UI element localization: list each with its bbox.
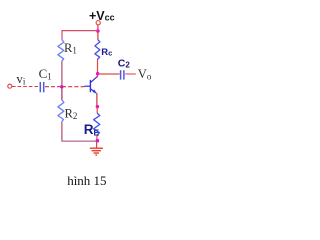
node A (base node junction) (60, 85, 64, 89)
resistor R1 (58, 40, 77, 87)
node ground junction (96, 139, 100, 143)
wire collector node to C2 (98, 73, 120, 75)
resistor RE (84, 107, 100, 141)
svg-text:R2: R2 (65, 107, 78, 122)
svg-text:C2: C2 (118, 57, 131, 69)
wire node A to base (62, 86, 85, 88)
svg-text:R1: R1 (64, 41, 77, 56)
svg-text:Rc: Rc (101, 47, 112, 58)
svg-text:C1: C1 (39, 66, 52, 82)
transistor Q1 (NPN) (84, 77, 97, 94)
ground (90, 141, 103, 155)
svg-text:RE: RE (84, 122, 100, 137)
capacitor C1 (39, 66, 52, 92)
resistor R2 (58, 87, 77, 141)
+Vcc power label (89, 9, 115, 23)
svg-text:Vo: Vo (138, 67, 152, 81)
svg-text:+Vcc: +Vcc (89, 9, 115, 23)
node collector / output junction (96, 72, 100, 76)
svg-text:hình 15: hình 15 (67, 173, 106, 188)
Vcc terminal circle (96, 21, 100, 25)
resistor Rc (95, 32, 112, 74)
wire input to C1 (12, 86, 39, 88)
wire emitter down (96, 93, 98, 106)
wire Vcc stem (97, 25, 99, 31)
wire top rail (62, 31, 98, 40)
wire collector up (97, 74, 99, 78)
wire bottom rail (62, 139, 97, 142)
node emitter junction (96, 105, 100, 109)
input terminal circle v_i (8, 84, 12, 88)
capacitor C2 (118, 57, 131, 79)
wire C1 to node A (45, 86, 62, 88)
node junction at Vcc rail (96, 29, 100, 33)
svg-text:vi: vi (16, 71, 26, 86)
wire C2 to output (125, 73, 136, 75)
